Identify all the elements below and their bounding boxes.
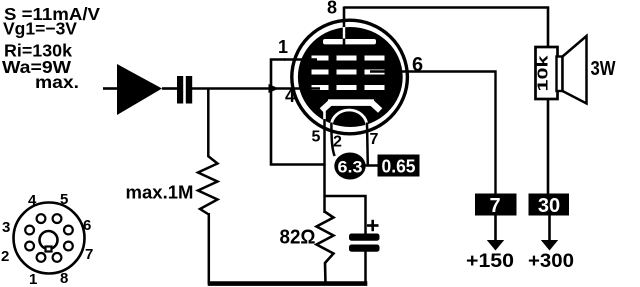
socket pin 1 hole [37, 253, 46, 262]
svg-text:5: 5 [312, 129, 321, 146]
wire grid-leak drop [207, 89, 210, 158]
wire R3 to bottom bus [324, 263, 327, 284]
svg-text:+300: +300 [528, 251, 574, 272]
pin 1 lead across ring [284, 58, 317, 60]
svg-text:0.65: 0.65 [382, 157, 416, 177]
cathode [322, 99, 380, 110]
screen current box 7 [475, 194, 517, 218]
wire C1 to grid [192, 87, 270, 90]
svg-text:2: 2 [1, 248, 9, 265]
heater lead pin 7 [366, 123, 369, 166]
input arrow symbol [117, 64, 162, 115]
svg-text:5: 5 [60, 191, 68, 208]
svg-text:10k: 10k [535, 55, 552, 92]
tube V1 inner electrode disc [298, 27, 403, 127]
grid row g2 [312, 70, 385, 75]
svg-text:7: 7 [489, 195, 500, 217]
svg-text:6.3: 6.3 [338, 158, 363, 177]
anode current box 30 [529, 194, 570, 218]
heater current box 0.65 [378, 155, 420, 177]
wire input stub [103, 87, 118, 90]
heater lead pin 2 [331, 123, 334, 157]
svg-text:30: 30 [538, 195, 560, 217]
arrow to +150 [487, 215, 504, 251]
svg-text:max.1M: max.1M [126, 183, 194, 203]
anode plate [323, 39, 376, 44]
heater arch [331, 110, 367, 126]
cathode lead black [323, 119, 326, 165]
grid g1 lead across ring [269, 87, 320, 90]
wire screen g2 to box7 [370, 72, 496, 196]
svg-text:4: 4 [285, 86, 295, 106]
wire input to C1 [162, 87, 178, 90]
grid row g3 [312, 56, 385, 61]
wire 6.3 to 0.65 [364, 164, 379, 167]
socket pin 2 hole [25, 242, 34, 251]
socket pin 7 hole [64, 242, 73, 251]
grid wire arrow [269, 84, 280, 93]
wire pin1 loop (pin1 to cathode) [271, 60, 325, 165]
resistor R1 max.1M [198, 156, 218, 214]
socket pin 6 hole [64, 226, 73, 235]
svg-text:Vg1=−3V: Vg1=−3V [3, 19, 77, 39]
wire C2 to bottom bus [364, 251, 367, 284]
wire cathode to R3 junction [323, 164, 326, 213]
wire bottom bus [208, 281, 368, 286]
wire R1 to bottom bus [208, 213, 211, 284]
anode lead wire [343, 7, 346, 46]
grid row g1 [312, 85, 385, 90]
cathode lead white segment [323, 105, 326, 123]
svg-text:1: 1 [29, 271, 37, 287]
socket pin 5 hole [53, 214, 62, 223]
speaker LS [557, 36, 587, 104]
svg-text:8: 8 [60, 270, 68, 287]
socket pin 3 hole [25, 226, 34, 235]
resistor R3 82ohm [317, 212, 334, 264]
resistor R2 10k box [535, 47, 558, 99]
socket pin 4 hole [37, 214, 46, 223]
C2 polarity plus [367, 220, 379, 231]
svg-text:3: 3 [2, 219, 10, 236]
capacitor C1 (coupling) [177, 76, 192, 104]
tube V1 envelope [292, 20, 408, 134]
svg-text:82Ω: 82Ω [280, 227, 316, 249]
socket pin 8 hole [53, 253, 62, 262]
svg-text:8: 8 [327, 0, 337, 18]
svg-text:7: 7 [85, 246, 93, 263]
svg-text:2: 2 [333, 134, 342, 151]
svg-text:+150: +150 [466, 251, 514, 272]
svg-text:6: 6 [83, 217, 91, 234]
heater voltage node 6.3 [334, 153, 365, 180]
wire cathode to C2 [324, 196, 366, 235]
wire R2 to box30 [547, 99, 550, 195]
svg-text:4: 4 [28, 192, 37, 209]
socket key spigot [40, 231, 58, 252]
socket base outline [14, 203, 85, 274]
svg-text:7: 7 [370, 131, 379, 148]
svg-text:max.: max. [35, 72, 79, 92]
wire anode top run [344, 8, 548, 49]
arrow to +300 [541, 215, 558, 251]
svg-text:1: 1 [278, 37, 288, 57]
capacitor C2 electrolytic plates [349, 234, 380, 252]
svg-text:3W: 3W [591, 58, 616, 80]
